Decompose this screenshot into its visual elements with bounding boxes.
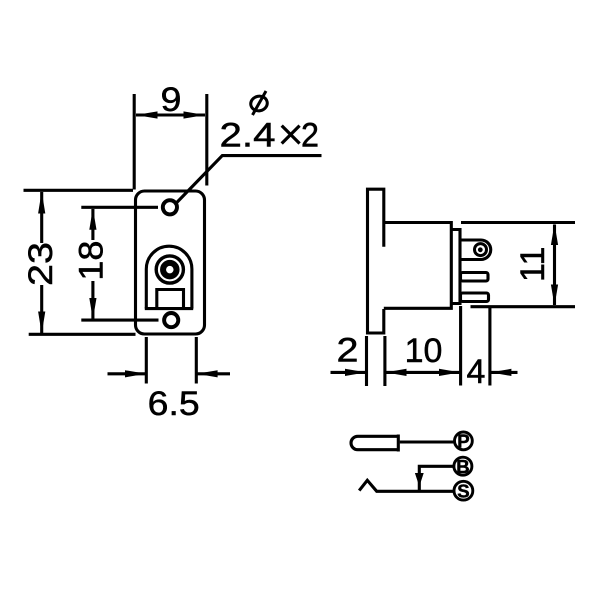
- terminal S circle: [454, 481, 473, 500]
- dim 4 arrow: [490, 369, 511, 376]
- svg-text:2.4: 2.4: [220, 117, 276, 155]
- side view rear cap: [451, 230, 460, 304]
- dim 11 arrow up: [551, 224, 558, 245]
- times sign: [282, 126, 300, 144]
- dim 18 extension bottom: [81, 319, 158, 322]
- leader line to top hole: [176, 156, 322, 204]
- wire B: [419, 466, 454, 490]
- pin slot rectangle: [157, 290, 184, 309]
- dim 18 arrow down: [89, 298, 96, 319]
- dim 11 arrow down: [551, 285, 558, 306]
- barrel center pin ring: [163, 263, 177, 277]
- dim 2 tail: [331, 371, 367, 374]
- dim 6.5 extension left: [145, 337, 148, 384]
- svg-text:2: 2: [337, 332, 359, 370]
- wire S with spring contact: [359, 480, 454, 491]
- barrel arch: [146, 246, 192, 308]
- dim 6.5 arrow left: [125, 370, 146, 377]
- dim 23 extension top: [24, 189, 134, 192]
- dim 4 extension left: [459, 306, 462, 386]
- label phi symbol: [249, 91, 268, 115]
- dim 4 extension right: [488, 306, 491, 386]
- dim 23 line lower: [40, 285, 43, 334]
- dim 18 line upper: [91, 209, 94, 240]
- side view flange: [368, 189, 384, 333]
- pin S (bottom pin): [461, 293, 489, 302]
- mounting hole bottom: [164, 313, 178, 327]
- dim 11 line: [553, 225, 556, 306]
- svg-text:9: 9: [161, 81, 182, 119]
- plug symbol barrel: [351, 436, 397, 449]
- dim 23 arrow up: [38, 191, 45, 213]
- svg-text:23: 23: [22, 242, 60, 286]
- pin P hole: [475, 244, 487, 256]
- svg-text:2: 2: [301, 117, 319, 155]
- dim 9 arrow left: [136, 111, 158, 118]
- svg-text:11: 11: [514, 247, 552, 282]
- dim 18 line lower: [91, 281, 94, 319]
- dim 11 extension top: [461, 221, 575, 224]
- svg-text:10: 10: [405, 332, 443, 370]
- dim 23 extension bottom: [29, 333, 136, 336]
- dim 23 line upper: [40, 192, 43, 243]
- mounting hole top: [163, 200, 177, 214]
- barrel base line: [145, 307, 193, 310]
- plug symbol end bar: [397, 435, 400, 452]
- dim 9 line: [136, 113, 205, 116]
- wire P: [400, 440, 454, 443]
- svg-text:P: P: [457, 430, 469, 451]
- dim 2 extension right: [383, 336, 386, 386]
- pin B (middle pin): [461, 273, 489, 282]
- dim 4 tail: [490, 371, 517, 374]
- dim 9 extension line left: [133, 94, 136, 190]
- dim 6.5 arrow right: [197, 370, 218, 377]
- dim 9 extension line right: [205, 94, 208, 186]
- dim 10 line: [386, 371, 461, 374]
- svg-text:4: 4: [467, 353, 486, 391]
- dim 2 arrow: [345, 369, 366, 376]
- dim 6.5 extension right: [195, 337, 198, 384]
- pin P (top pin): [460, 240, 491, 260]
- terminal B circle: [454, 457, 472, 475]
- svg-text:S: S: [457, 480, 469, 501]
- dim 18 extension top: [81, 206, 158, 209]
- terminal P circle: [455, 432, 473, 450]
- barrel outer ring: [156, 256, 183, 283]
- dim 9 arrow right: [184, 111, 206, 118]
- dim 6.5 tail right: [197, 372, 230, 375]
- dim 2 extension left: [365, 336, 368, 386]
- dim 10 arrow right: [439, 369, 460, 376]
- svg-text:B: B: [456, 456, 469, 477]
- wire B arrowhead: [415, 473, 424, 487]
- dim 23 arrow down: [38, 312, 45, 334]
- front view body outline: [136, 191, 205, 334]
- svg-text:18: 18: [73, 241, 111, 281]
- dim 10 arrow left: [386, 369, 407, 376]
- dim 11 extension bottom: [471, 305, 576, 308]
- pin P hole center dot: [478, 247, 483, 252]
- dim 18 arrow up: [89, 208, 96, 230]
- side view body: [384, 223, 452, 309]
- dim 6.5 tail left: [108, 372, 147, 375]
- svg-text:6.5: 6.5: [148, 385, 200, 423]
